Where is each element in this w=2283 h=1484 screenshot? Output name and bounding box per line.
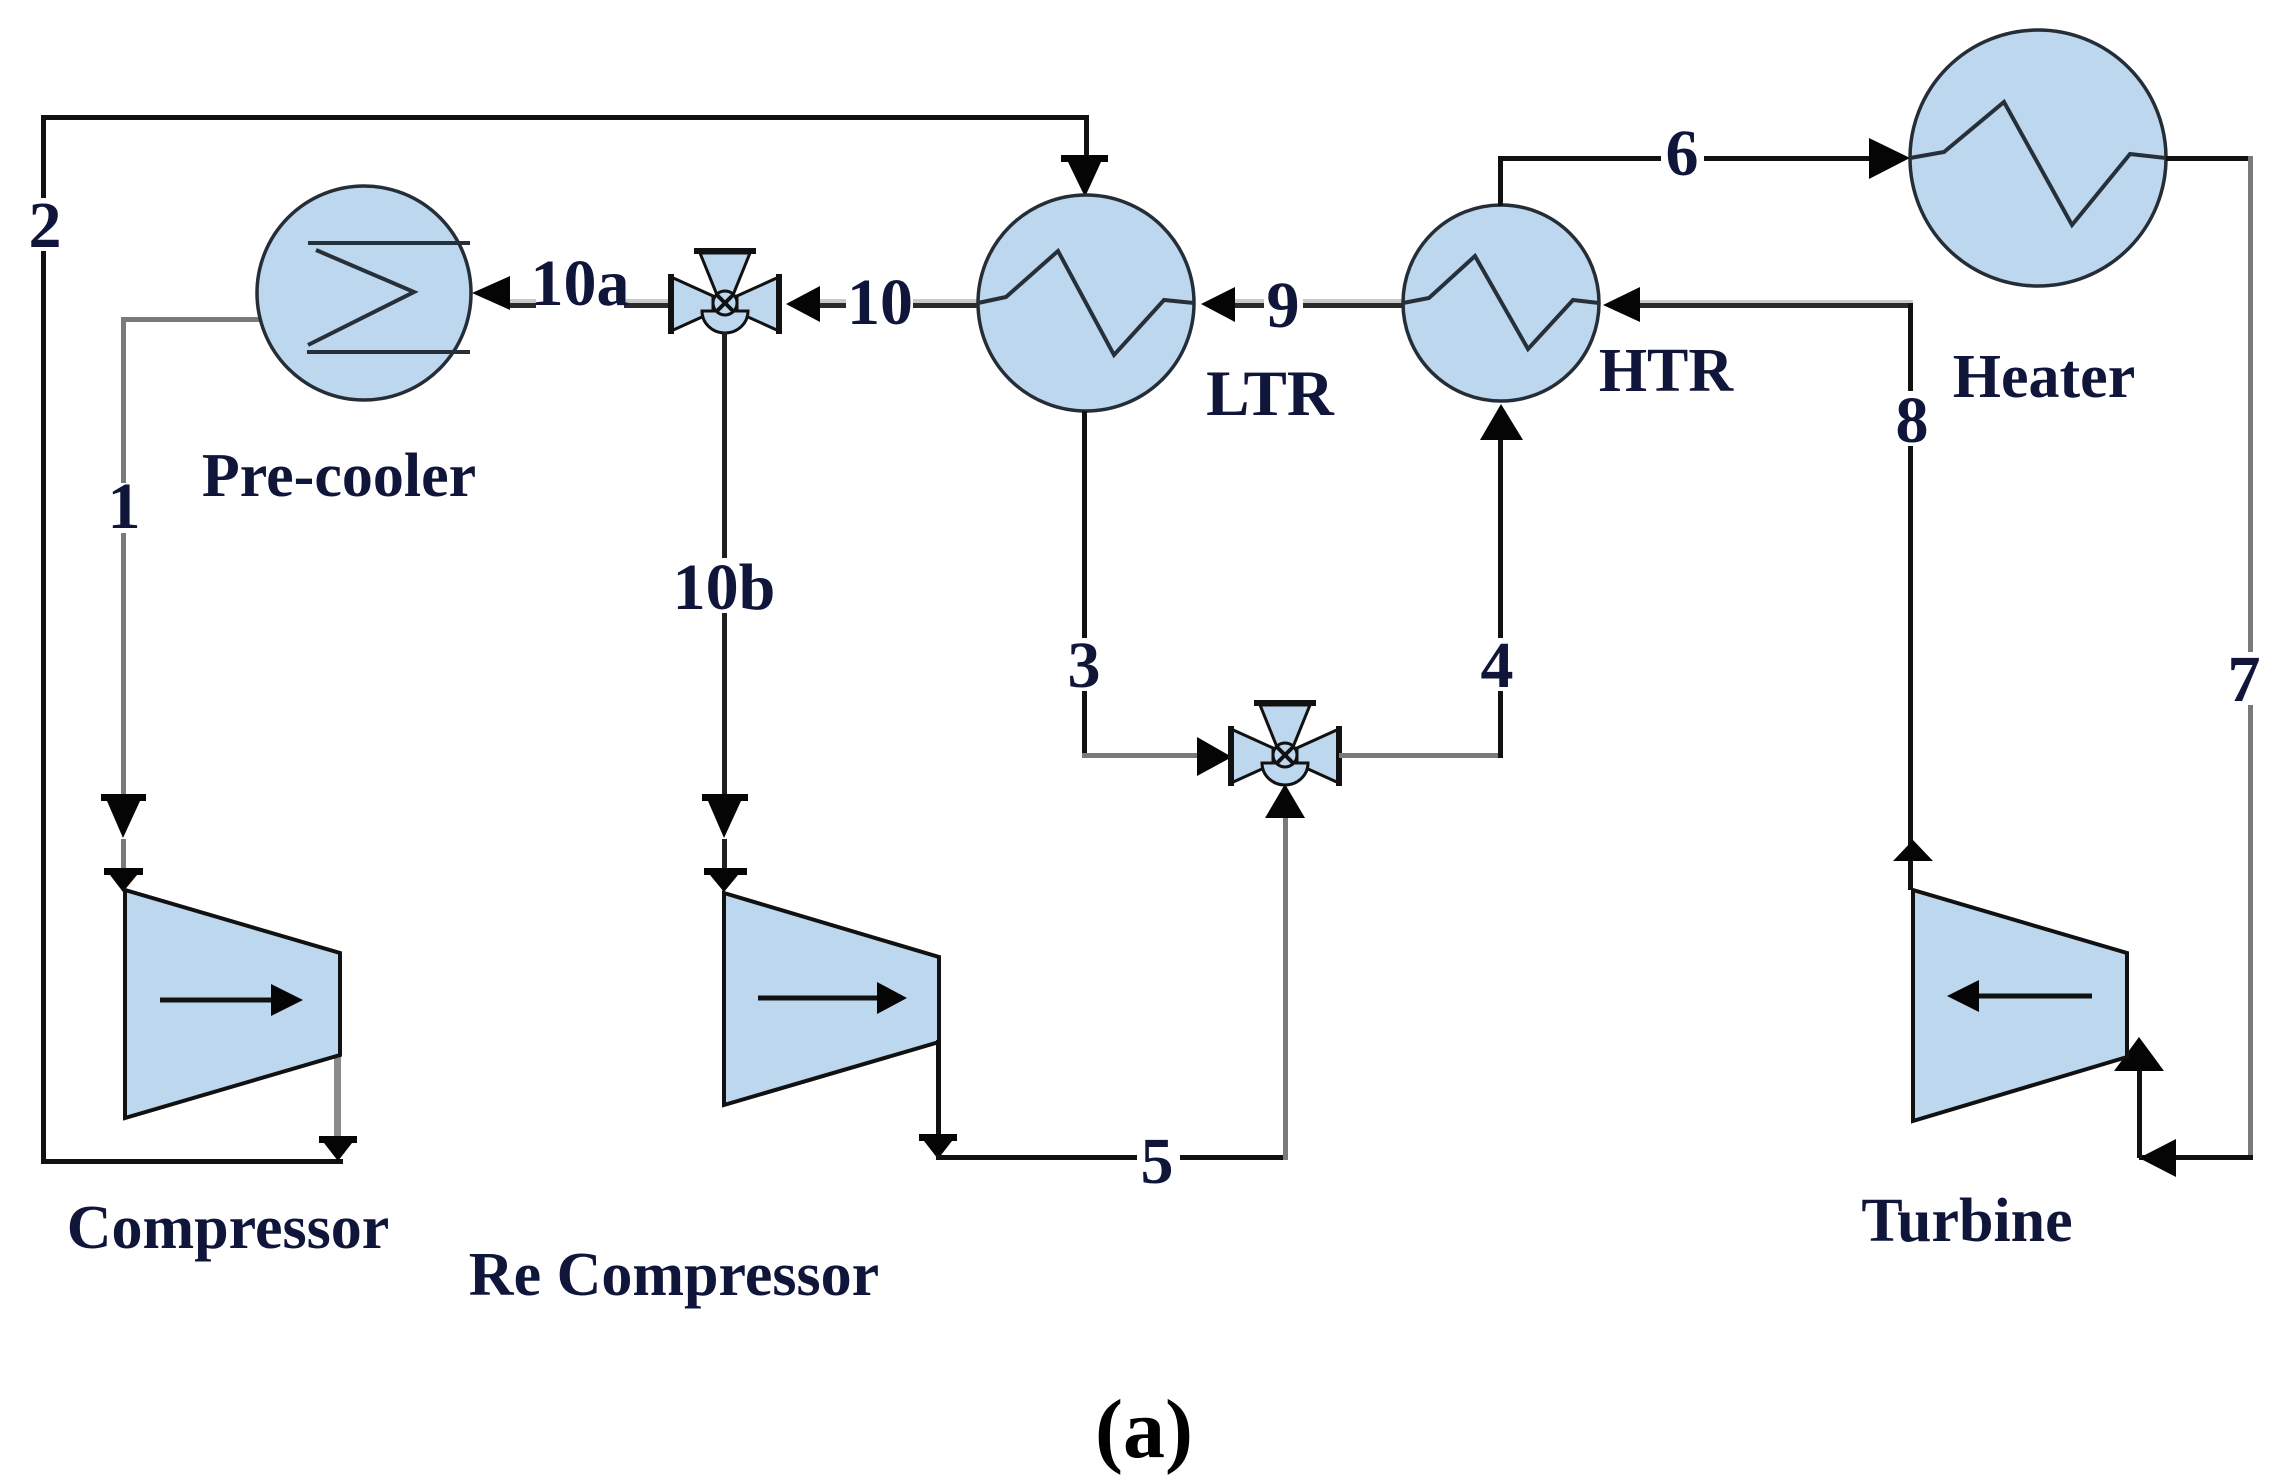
arrow inside turbine <box>1975 994 2092 999</box>
wire stream 1 between arrows <box>121 839 126 871</box>
node labels (stream numbers) <box>29 117 2261 1198</box>
svg-text:5: 5 <box>1141 1125 1174 1198</box>
svg-text:Turbine: Turbine <box>1861 1187 2072 1255</box>
HTR symbol zigzag <box>1403 256 1599 349</box>
svg-text:6: 6 <box>1666 117 1699 190</box>
wire stream 5 vertical <box>1283 818 1288 1160</box>
LTR symbol zigzag <box>978 251 1194 355</box>
wire stream 10b between arrows <box>722 839 727 871</box>
valve V2 <box>1231 703 1339 786</box>
arrow stream 10a into pre-cooler <box>472 276 510 310</box>
valve V1 <box>671 251 779 334</box>
svg-text:3: 3 <box>1068 629 1101 702</box>
wire stream 8 vertical <box>1908 303 1913 890</box>
wire stream 7 bottom horizontal <box>2139 1155 2253 1160</box>
arrow stream 7 into turbine <box>2114 1037 2164 1071</box>
wire stream 3 vertical <box>1082 411 1087 758</box>
wire stream 10b vertical <box>722 332 727 795</box>
wire stream 8 horizontal <box>1640 300 1913 303</box>
wire stream 1 horizontal from pre-cooler <box>121 317 261 322</box>
arrow stream 1 big <box>101 794 146 801</box>
wire stream 1 vertical <box>121 317 126 795</box>
arrow compressor outlet down <box>319 1136 357 1143</box>
wire stream 6 horizontal <box>1498 156 1870 161</box>
re-compressor body <box>724 893 939 1105</box>
wire stream 9 <box>1235 299 1403 303</box>
compressor C1 body <box>125 890 340 1118</box>
LTR circle <box>978 195 1194 411</box>
wire stream 10a <box>510 299 671 303</box>
arrow stream 3 into valve V2 <box>1197 737 1232 776</box>
heater symbol zigzag <box>1910 102 2166 225</box>
arrow stream 10 into valve V1 <box>786 286 820 322</box>
wire stream 3 horizontal <box>1082 753 1200 758</box>
wire stream 2 left vertical <box>41 115 46 1163</box>
HTR circle <box>1403 205 1599 401</box>
arrow stream 5 into valve V2 <box>1265 784 1305 818</box>
wire stream 10 <box>820 299 980 303</box>
label background masks over wires <box>24 126 2268 1187</box>
arrow stream 6 into heater <box>1869 138 1910 179</box>
svg-text:7: 7 <box>2228 643 2261 716</box>
wire stream 2 top horizontal <box>41 115 1089 120</box>
wire stream 5 horizontal <box>936 1155 1287 1160</box>
wire stream 4 vertical <box>1498 440 1503 758</box>
svg-text:8: 8 <box>1896 384 1929 457</box>
arrow stream 10b big <box>702 794 748 801</box>
wire LTR inlet drop <box>1084 115 1089 160</box>
arrow stream 8 up small <box>1893 840 1933 861</box>
svg-text:2: 2 <box>29 189 62 262</box>
svg-text:(a): (a) <box>1095 1383 1193 1476</box>
svg-text:Heater: Heater <box>1953 343 2135 411</box>
wire heater outlet to right <box>2166 156 2252 161</box>
svg-text:10b: 10b <box>673 551 776 624</box>
arrow stream 10b small <box>704 868 747 875</box>
arrow re-compressor outlet down <box>919 1134 957 1141</box>
arrow inside re-compressor <box>758 996 878 1001</box>
wire stream 7 up into turbine <box>2137 1060 2142 1158</box>
pre-cooler circle <box>257 186 471 400</box>
svg-text:LTR: LTR <box>1206 358 1335 430</box>
svg-text:10: 10 <box>847 266 913 339</box>
wire stream 7 vertical <box>2248 156 2253 1160</box>
arrow into LTR top <box>1061 155 1108 162</box>
svg-text:Compressor: Compressor <box>67 1194 390 1262</box>
svg-text:10a: 10a <box>531 247 630 320</box>
turbine body <box>1913 890 2127 1121</box>
pre-cooler symbol <box>307 243 470 352</box>
svg-text:HTR: HTR <box>1599 337 1735 405</box>
arrow stream 1 small <box>104 868 143 875</box>
svg-text:9: 9 <box>1267 269 1300 342</box>
arrow stream 4 into HTR bottom <box>1480 404 1523 440</box>
arrow stream 7 left <box>2139 1139 2176 1177</box>
svg-text:Re Compressor: Re Compressor <box>469 1241 879 1309</box>
arrow inside compressor <box>160 998 272 1003</box>
wire stream 6 vertical from HTR top <box>1498 156 1503 206</box>
wire stream 2 bottom horizontal <box>41 1159 343 1164</box>
svg-text:4: 4 <box>1481 629 1514 702</box>
heater circle <box>1910 30 2166 286</box>
svg-text:1: 1 <box>108 470 141 543</box>
arrow stream 9 into LTR <box>1201 287 1235 322</box>
wire re-compressor outlet vertical <box>936 1040 941 1135</box>
arrow stream 8 into HTR right <box>1603 287 1640 322</box>
wire stream 4 horizontal <box>1339 753 1503 758</box>
wire compressor outlet vertical <box>334 1050 341 1137</box>
svg-text:Pre-cooler: Pre-cooler <box>202 442 476 510</box>
